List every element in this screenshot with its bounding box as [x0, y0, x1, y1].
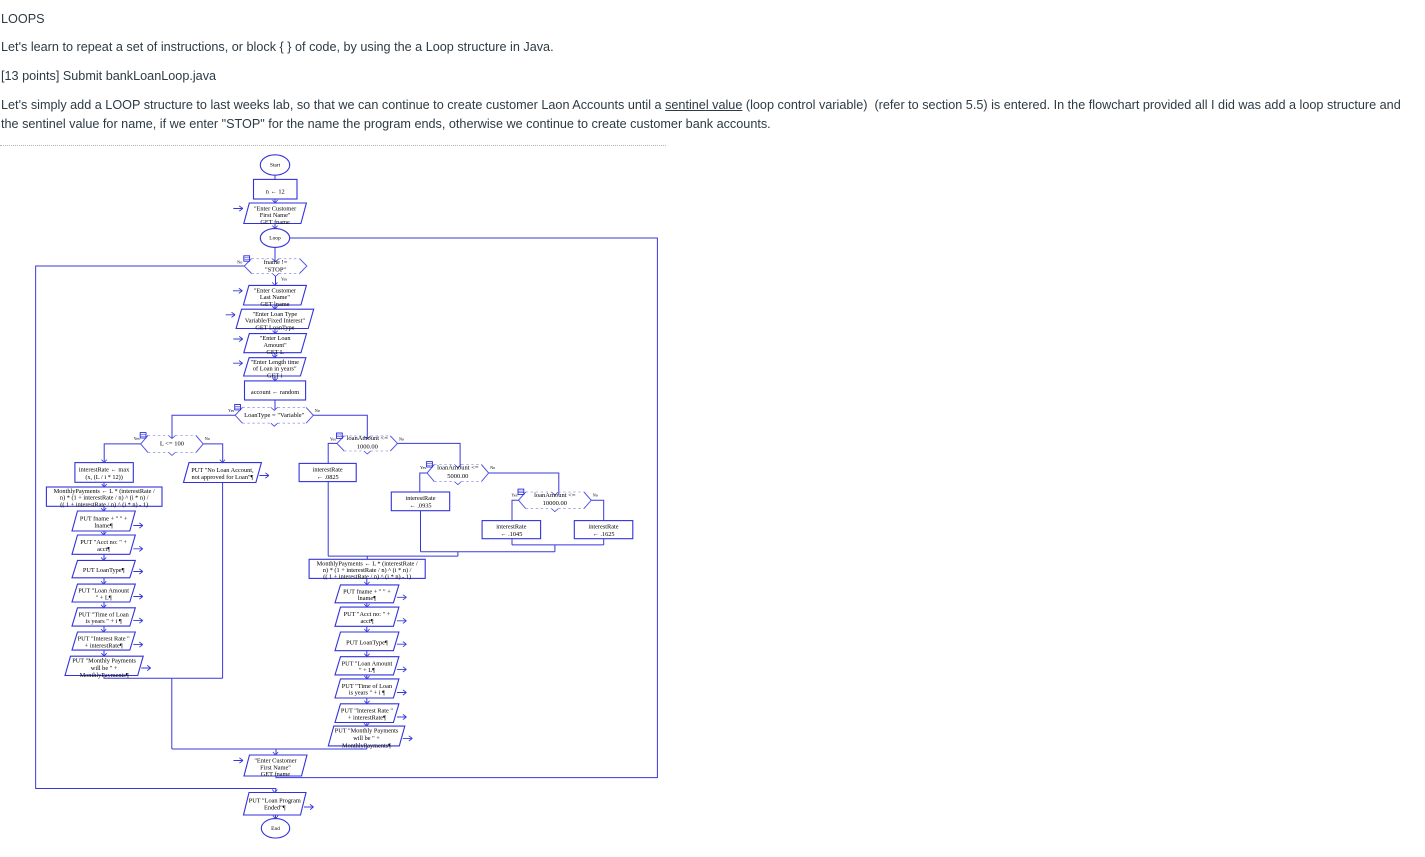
- svg-text:PUT "Loan Program: PUT "Loan Program: [249, 797, 301, 804]
- svg-text:interestRate: interestRate: [313, 466, 343, 473]
- output PUT Time of Loan right: [335, 676, 406, 698]
- svg-text:fname !=: fname !=: [264, 259, 288, 266]
- wire Loop to decision: [274, 247, 276, 261]
- svg-text:Yes: Yes: [420, 465, 426, 470]
- wire left col 3: [103, 578, 105, 584]
- svg-text:Start: Start: [270, 163, 281, 169]
- input Enter Length of Loan GET i: [233, 355, 306, 380]
- wire merge 1000: [328, 556, 458, 559]
- decision L <= 100: [134, 433, 210, 456]
- output PUT Loan Amount right: [335, 654, 406, 675]
- wire left col 6: [103, 650, 105, 656]
- wire loan amount to length: [274, 353, 276, 358]
- svg-text:not approved for Loan"¶: not approved for Loan"¶: [191, 474, 253, 481]
- wire merge 5000: [421, 552, 555, 556]
- svg-text:End: End: [271, 826, 280, 832]
- loop-back wire: [276, 238, 657, 778]
- assignment interestRate .0825: [299, 463, 356, 481]
- wire LoanType No branch: [313, 415, 367, 438]
- wire right col 3: [366, 651, 368, 657]
- decision LoanType = Variable: [228, 405, 320, 427]
- decision loanAmount <= 10000: [511, 489, 597, 512]
- svg-text:Yes: Yes: [281, 276, 287, 281]
- wire L<=100 No branch: [203, 444, 223, 463]
- assignment MonthlyPayments left: [46, 484, 162, 508]
- svg-text:lname¶: lname¶: [95, 522, 113, 529]
- wire input fname to Loop: [274, 224, 276, 229]
- wire start to n=12: [274, 175, 276, 179]
- assignment account = random: [245, 378, 306, 400]
- wire left merge: [104, 676, 223, 750]
- output PUT Interest Rate left: [72, 629, 143, 650]
- wire .0935 down: [420, 511, 422, 552]
- wire right col 5: [366, 698, 368, 704]
- svg-text:Yes: Yes: [330, 436, 336, 441]
- terminal Loop: [260, 226, 289, 248]
- wire 10000 No branch: [591, 500, 604, 520]
- svg-text:← .0825: ← .0825: [317, 474, 339, 481]
- wire No exit to program end: [36, 266, 276, 793]
- svg-text:+ interestRate¶: + interestRate¶: [348, 714, 386, 721]
- svg-text:lname¶: lname¶: [358, 595, 376, 602]
- svg-text:is years " + i ¶: is years " + i ¶: [349, 690, 385, 697]
- svg-text:acct¶: acct¶: [360, 618, 373, 625]
- svg-text:account ← random: account ← random: [251, 389, 299, 396]
- svg-text:Yes: Yes: [228, 408, 234, 413]
- decision fname != STOP: [237, 256, 307, 282]
- wire bottom merge: [172, 749, 367, 755]
- wire No Loan Account down: [222, 483, 224, 679]
- wire right col down: [366, 746, 368, 749]
- assignment interestRate .0935: [391, 492, 449, 511]
- output PUT Acct no left: [72, 532, 143, 554]
- wire account to decision LoanType: [274, 400, 276, 410]
- terminal Start: [260, 155, 289, 175]
- wire to MonthlyPayments left: [103, 482, 105, 487]
- wire left col 5: [103, 626, 105, 632]
- svg-text:interestRate: interestRate: [589, 523, 619, 530]
- wire right col 4: [366, 675, 368, 679]
- output PUT Monthly Payments left: [65, 653, 151, 679]
- decision loanAmount <= 5000: [420, 462, 495, 485]
- svg-text:← .1045: ← .1045: [500, 531, 522, 538]
- input Enter Customer First Name bottom: [234, 752, 308, 778]
- wire length to account: [274, 376, 276, 381]
- svg-text:LoanType = "Variable": LoanType = "Variable": [244, 412, 304, 419]
- svg-text:(x, (L / i * 12)): (x, (L / i * 12)): [85, 474, 123, 481]
- wire to End: [275, 815, 277, 819]
- svg-text:acct¶: acct¶: [97, 546, 110, 553]
- assignment n = 12: [254, 179, 298, 199]
- output PUT No Loan Account: [184, 460, 269, 483]
- wire .0825 down: [327, 482, 329, 556]
- svg-text:n ← 12: n ← 12: [266, 188, 285, 195]
- input Enter Customer First Name GET fname: [233, 200, 306, 226]
- svg-text:interestRate: interestRate: [496, 523, 526, 530]
- wire right col 6: [366, 723, 368, 727]
- wire 10000 Yes branch: [512, 500, 519, 520]
- wire left col 2: [103, 554, 105, 560]
- wire n=12 to input fname: [274, 199, 276, 203]
- svg-text:Yes: Yes: [511, 493, 517, 498]
- svg-text:No: No: [399, 436, 404, 441]
- output PUT LoanType left: [72, 557, 143, 577]
- output PUT fname lname left: [72, 508, 143, 531]
- svg-text:← .1625: ← .1625: [593, 531, 615, 538]
- wire LoanType Yes branch: [172, 415, 235, 438]
- svg-text:is years " + i ¶: is years " + i ¶: [86, 618, 122, 625]
- svg-text:No: No: [237, 259, 242, 264]
- svg-text:Ended"¶: Ended"¶: [264, 805, 286, 812]
- wire 1000 Yes branch: [328, 443, 337, 463]
- decision loanAmount <= 1000: [330, 433, 404, 454]
- output PUT LoanType right: [335, 629, 406, 651]
- svg-text:10000.00: 10000.00: [543, 500, 567, 507]
- svg-text:loanAmount <=: loanAmount <=: [437, 465, 479, 472]
- wire to PUT fname left: [103, 506, 105, 511]
- svg-text:"STOP": "STOP": [265, 267, 286, 274]
- input Enter Loan Type GET LoanType: [226, 306, 314, 331]
- svg-text:PUT LoanType¶: PUT LoanType¶: [83, 567, 125, 574]
- output PUT Interest Rate right: [335, 701, 406, 723]
- svg-text:← .0935: ← .0935: [409, 503, 431, 510]
- input Enter Customer Last Name GET lname: [233, 282, 307, 307]
- svg-text:5000.00: 5000.00: [447, 473, 468, 480]
- wire L<=100 Yes branch: [104, 444, 141, 463]
- output PUT Loan Program Ended: [244, 790, 314, 816]
- wire 5000 No branch: [489, 473, 559, 495]
- svg-text:interestRate ← max: interestRate ← max: [79, 467, 130, 474]
- svg-text:PUT LoanType¶: PUT LoanType¶: [346, 639, 388, 646]
- svg-text:No: No: [593, 493, 598, 498]
- output PUT Acct no right: [335, 604, 406, 626]
- svg-text:interestRate: interestRate: [405, 495, 435, 502]
- wire to PUT fname right: [366, 578, 368, 585]
- assignment interestRate .1625: [574, 521, 633, 539]
- wire lname to loan type: [274, 305, 276, 309]
- svg-text:PUT "Monthly Payments: PUT "Monthly Payments: [72, 657, 136, 664]
- wire left col 4: [103, 602, 105, 608]
- svg-text:will be " +: will be " +: [353, 735, 380, 742]
- output PUT fname lname right: [335, 582, 406, 603]
- input Enter Loan Amount GET L: [233, 331, 306, 356]
- svg-text:loanAmount <=: loanAmount <=: [534, 492, 576, 499]
- wire right col 1: [366, 603, 368, 607]
- wire loan type to loan amount: [274, 329, 276, 334]
- svg-text:Yes: Yes: [134, 436, 140, 441]
- svg-text:+ interestRate¶: + interestRate¶: [85, 642, 123, 649]
- svg-text:L <= 100: L <= 100: [160, 441, 184, 448]
- wire merge 10000: [512, 539, 604, 552]
- svg-text:" + L¶: " + L¶: [359, 667, 375, 674]
- svg-text:loanAmount <=: loanAmount <=: [347, 435, 389, 442]
- output PUT Monthly Payments right: [328, 723, 412, 749]
- wire left col 1: [103, 531, 105, 535]
- svg-text:Loop: Loop: [269, 236, 281, 242]
- svg-text:No: No: [490, 465, 495, 470]
- wire 5000 Yes branch: [420, 473, 427, 492]
- svg-text:No: No: [315, 408, 320, 413]
- output PUT Time of Loan left: [72, 605, 143, 626]
- svg-text:No: No: [205, 436, 210, 441]
- wire 1000 No branch: [398, 443, 461, 467]
- svg-text:1000.00: 1000.00: [357, 443, 378, 450]
- wire Yes to input lname: [275, 276, 277, 285]
- assignment interestRate = max: [75, 460, 133, 483]
- svg-text:will be " +: will be " +: [91, 665, 118, 672]
- svg-text:PUT "Monthly Payments: PUT "Monthly Payments: [335, 728, 399, 735]
- svg-text:" + L¶: " + L¶: [96, 594, 112, 601]
- output PUT Loan Amount left: [72, 581, 143, 602]
- terminal End: [261, 816, 289, 838]
- assignment MonthlyPayments right: [309, 559, 425, 580]
- svg-text:GET fname: GET fname: [261, 771, 291, 778]
- wire right col 2: [366, 626, 368, 632]
- assignment interestRate .1045: [482, 521, 540, 539]
